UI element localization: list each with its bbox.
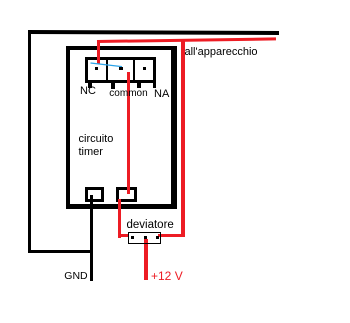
terminal leg 4 bbox=[153, 83, 157, 88]
label deviatore bbox=[127, 220, 174, 231]
wire: red box2 to deviatore vertical bbox=[118, 199, 122, 238]
deviatore dot 2 bbox=[144, 236, 147, 239]
label all'apparecchio bbox=[185, 47, 258, 58]
terminal leg 1 bbox=[88, 83, 92, 88]
wire: black appliance/GND wire, top horizontal bbox=[28, 30, 279, 35]
wire: red +12V vertical bbox=[144, 239, 148, 281]
wire: red NC vertical bbox=[97, 40, 100, 64]
wire: red stub to deviatore left pin bbox=[118, 234, 130, 237]
wire: black left vertical bbox=[28, 30, 32, 253]
power terminal box 1 (GND) bbox=[85, 187, 104, 202]
label +12 V bbox=[151, 271, 183, 282]
contact box divider 2 bbox=[133, 57, 136, 83]
wire: black bottom horizontal bbox=[28, 250, 94, 254]
deviatore dot 3 bbox=[156, 236, 159, 239]
deviatore switch box S1 bbox=[128, 232, 161, 244]
wire: red common vertical down bbox=[127, 72, 130, 194]
label NA bbox=[154, 89, 169, 100]
wire: red top horizontal to appliance bbox=[97, 38, 276, 44]
contact box divider 1 bbox=[106, 57, 109, 83]
relay contact box K1 bbox=[85, 57, 157, 83]
power terminal box 2 (+12V in) bbox=[116, 187, 136, 202]
label common bbox=[109, 88, 147, 99]
label circuito timer bbox=[79, 133, 114, 159]
label NC bbox=[80, 86, 96, 97]
terminal leg 2 bbox=[111, 83, 115, 89]
timer module box U1 bbox=[66, 46, 177, 209]
wire: red horizontal to deviatore right pin bbox=[158, 234, 185, 237]
wire: red long vertical right (appliance line to deviatore) bbox=[181, 40, 185, 238]
terminal leg 3 bbox=[137, 83, 141, 88]
wire: black GND vertical bbox=[90, 195, 94, 281]
contact dot NA bbox=[143, 67, 146, 70]
deviatore dot 1 bbox=[131, 236, 134, 239]
label GND bbox=[64, 271, 87, 282]
contact dot NC bbox=[95, 67, 99, 71]
contact dot common bbox=[119, 67, 123, 71]
